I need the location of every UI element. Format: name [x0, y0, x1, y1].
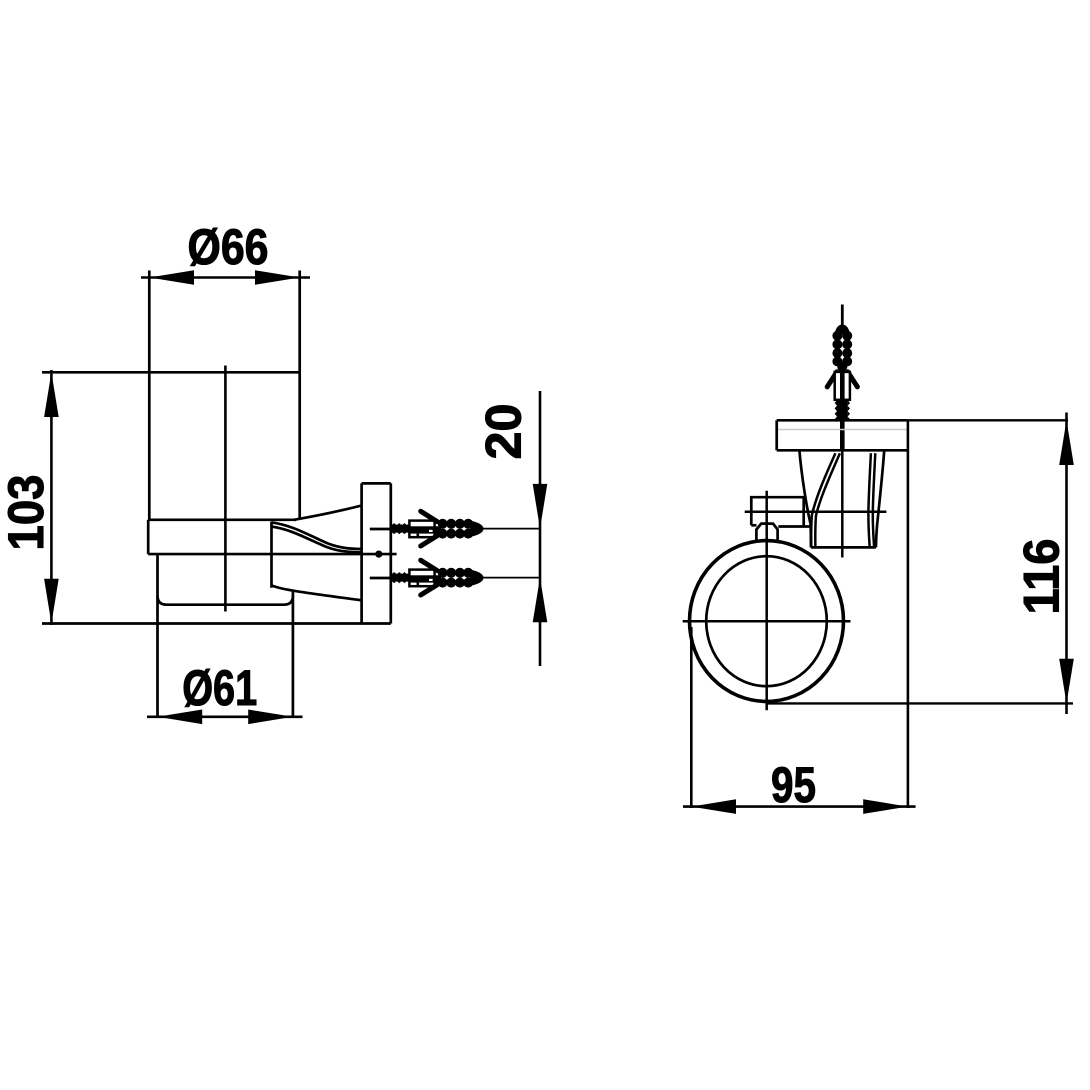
arrowhead 103 top	[44, 372, 59, 417]
arm right inner curve b	[873, 453, 876, 547]
holder ring band (side view)	[148, 520, 296, 554]
95 left extension line	[690, 627, 693, 808]
holder ring outer circle	[690, 541, 844, 702]
arrowhead 116 top	[1059, 420, 1074, 465]
barb upper	[421, 511, 437, 521]
screw tip line	[841, 305, 844, 328]
screw inside collar	[840, 372, 845, 400]
arm S-curve upper	[272, 522, 362, 549]
glass left edge	[148, 271, 151, 520]
dimension line Ø66	[141, 276, 310, 279]
glass lower left edge + Ø61 extension	[156, 554, 159, 717]
glass lower right edge + Ø61 extension	[292, 590, 295, 717]
holder ring inner circle	[706, 556, 827, 686]
holder arm (side view)	[272, 506, 362, 601]
plate inner highlight line	[778, 429, 907, 431]
screw line in plate bottom	[370, 577, 391, 580]
ring bottom extension line to 116	[767, 702, 1074, 704]
arm S-curve lower	[272, 527, 362, 553]
wall plate (side view)	[362, 483, 391, 623]
ribbed body	[438, 519, 484, 539]
arrowhead 116 bottom	[1059, 659, 1074, 704]
arm left outer edge	[799, 451, 811, 548]
arrowhead 103 bottom	[44, 579, 59, 624]
screw through plate	[840, 420, 845, 450]
center dot on wall plate	[375, 551, 382, 558]
barb right	[848, 372, 858, 387]
glass inner bottom	[158, 596, 293, 605]
arrowhead 20 top	[533, 484, 548, 529]
arm left inner curve b	[815, 453, 840, 547]
arrowhead Ø66 right	[255, 270, 300, 285]
threaded shaft	[837, 400, 848, 420]
glass right edge	[298, 271, 301, 520]
clamp horizontal centerline	[745, 510, 887, 513]
arm right inner curve a	[868, 453, 871, 547]
screw inside collar	[409, 526, 441, 533]
svg-text:95: 95	[771, 757, 816, 813]
arrowhead Ø61 right	[248, 710, 293, 725]
screw line in plate top	[370, 528, 391, 531]
arm front edge	[270, 522, 273, 588]
clamp nut	[756, 524, 777, 541]
svg-text:Ø61: Ø61	[182, 660, 257, 716]
arrowhead Ø66 left	[149, 270, 194, 285]
anchor collar	[409, 521, 434, 538]
barb left	[827, 372, 837, 387]
arrowhead Ø61 left	[158, 710, 203, 725]
svg-text:20: 20	[476, 404, 532, 460]
glass tumbler upper outline with extension lines	[42, 271, 300, 520]
wall plate (front view)	[777, 420, 908, 450]
arm vertical centerline below plate	[841, 450, 844, 557]
svg-text:Ø66: Ø66	[188, 219, 269, 275]
threaded shaft	[391, 525, 409, 533]
anchor tip	[835, 325, 851, 335]
anchor collar	[835, 372, 850, 400]
arm bottom edge	[811, 546, 876, 549]
ring vertical centerline	[765, 491, 768, 711]
arrowhead 95 left	[691, 799, 736, 814]
svg-text:103: 103	[0, 475, 54, 551]
vertical wall anchor	[827, 305, 857, 451]
glass top rim + 103 extension	[42, 371, 300, 374]
glass outer bottom / 103 extension / plate bottom line	[42, 622, 391, 625]
arm top curve	[294, 506, 362, 520]
arm bottom curve	[272, 585, 362, 600]
wall anchor screw bottom (side view)	[391, 560, 540, 595]
ribbed body	[832, 331, 852, 372]
arrowhead 95 right	[863, 799, 908, 814]
wall anchor screw top (side view)	[391, 511, 540, 546]
arm left inner curve a	[811, 453, 835, 547]
holder arm (front view)	[799, 451, 884, 548]
arrowhead 20 bottom	[533, 578, 548, 623]
band bottom / screw horizontal centerline	[148, 553, 396, 556]
glass centerline	[224, 366, 227, 612]
extension line to 20-dim	[481, 528, 540, 530]
95 dimension line	[683, 805, 916, 808]
ring horizontal centerline	[683, 620, 851, 623]
arm right outer edge	[876, 451, 884, 548]
plate right edge + 95 extension line	[907, 420, 910, 808]
barb lower	[421, 536, 437, 546]
plate top extension line to 116	[908, 419, 1068, 421]
ring clamp block (front view)	[751, 497, 811, 541]
svg-text:116: 116	[1014, 539, 1070, 615]
glass tumbler lower outline	[158, 554, 293, 717]
